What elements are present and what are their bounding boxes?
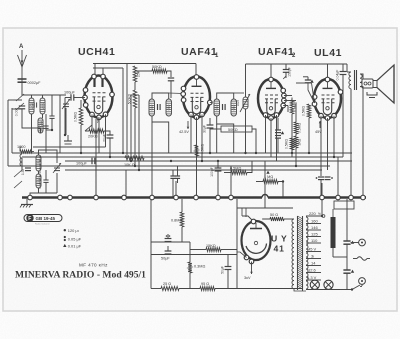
wire to output trafo: [346, 64, 348, 72]
wire UY top link: [242, 216, 254, 222]
trimmer C osc: [54, 167, 60, 169]
wire hl x131-139: [131, 94, 139, 96]
bus y166: [8, 165, 330, 167]
resistor 20K cathode: [89, 129, 104, 133]
wire top stub UAF2: [270, 64, 272, 78]
svg-text:50KΩ: 50KΩ: [228, 128, 238, 132]
cap between ant coils: [33, 102, 35, 107]
svg-text:1150: 1150: [37, 177, 41, 184]
svg-text:0.01 μF: 0.01 μF: [68, 243, 82, 248]
wire y254: [151, 254, 237, 256]
svg-text:10K Ω: 10K Ω: [124, 163, 135, 167]
svg-text:050: 050: [167, 105, 171, 111]
mains cap 2: [343, 269, 350, 271]
svg-text:95 Ω: 95 Ω: [201, 282, 209, 286]
svg-text:0.5MΩ: 0.5MΩ: [201, 144, 205, 155]
svg-text:30μF: 30μF: [203, 125, 207, 133]
wire vert x135b: [134, 108, 136, 166]
speaker magnet: [362, 79, 373, 88]
legend 0.05uF: [64, 236, 66, 238]
solder dots: [80, 152, 82, 154]
capacitor 100uF AVC: [215, 167, 222, 169]
resistor 0.8M: [181, 199, 183, 212]
svg-text:UCH41: UCH41: [78, 46, 115, 58]
svg-text:F: F: [28, 216, 31, 222]
wire coil cluster d: [59, 95, 61, 153]
wire osc a: [21, 145, 23, 147]
wire UAF1 pins down: [190, 115, 192, 154]
svg-text:1001: 1001: [41, 102, 45, 110]
antenna coil L1: [29, 98, 34, 114]
tap 45V: [306, 251, 321, 253]
svg-text:100μF: 100μF: [76, 162, 88, 166]
wire IF1 bot: [152, 116, 169, 130]
capacitor 20uF: [107, 134, 114, 136]
mains switch: [352, 285, 360, 290]
speaker cone: [373, 81, 377, 88]
junction x70: [68, 195, 73, 200]
svg-text:56V: 56V: [97, 116, 101, 123]
tube UAF41_2: [258, 79, 284, 118]
junction x30: [28, 195, 33, 200]
IF1 coil a: [149, 99, 155, 116]
svg-text:0.05 μF: 0.05 μF: [68, 236, 82, 241]
tap 125: [306, 236, 321, 238]
wire top stub UCH41 pin2: [102, 68, 104, 75]
capacitor 150pF: [285, 64, 287, 69]
tap 110: [306, 242, 321, 244]
svg-text:0.5MΩ: 0.5MΩ: [74, 112, 78, 123]
resistor 50K top: [152, 69, 167, 73]
wire trimmer drop: [65, 108, 67, 135]
svg-text:6.3 V: 6.3 V: [307, 275, 317, 280]
junction x124: [122, 195, 127, 200]
power trafo secondary: [306, 217, 308, 221]
wire top bus right: [246, 63, 348, 65]
fuse: [357, 257, 367, 261]
band switch diagonal: [14, 181, 22, 188]
wire IF2 plate link: [210, 102, 212, 104]
junction x152: [150, 195, 155, 200]
wire UY41 plate feed: [264, 161, 266, 208]
pilot lamp 1: [310, 280, 319, 289]
wire UL grid: [308, 83, 315, 103]
svg-text:500KΩ: 500KΩ: [128, 93, 132, 104]
wire diode pins: [284, 95, 292, 97]
wire osc e: [56, 173, 58, 193]
IF1 cap mid: [157, 104, 159, 110]
svg-text:0.2MΩ: 0.2MΩ: [294, 102, 298, 113]
resistor 500K vertical: [134, 82, 136, 90]
choke dark bar: [331, 217, 336, 248]
resistor 0.5M det2: [290, 138, 294, 150]
svg-text:0.5MΩ: 0.5MΩ: [285, 139, 289, 150]
wire x46 ant: [45, 114, 47, 153]
legend 0.01uF: [63, 244, 66, 247]
box under bus: [334, 201, 354, 209]
output transformer secondary: [360, 74, 362, 78]
trimmer C antenna: [63, 103, 69, 105]
svg-text:110: 110: [311, 238, 318, 243]
svg-text:12.6: 12.6: [308, 268, 317, 273]
IF2 coil a: [214, 99, 220, 116]
wire top stub UCH41 pin1: [94, 64, 96, 76]
switch diag ant: [16, 94, 24, 101]
junction x196: [194, 195, 199, 200]
svg-text:100μF: 100μF: [210, 167, 214, 177]
mains terminal 1: [359, 239, 366, 246]
svg-text:125: 125: [311, 232, 318, 237]
wire y147 left: [33, 146, 106, 148]
tap 6.3V: [306, 279, 321, 281]
wire choke: [332, 209, 334, 217]
wire coil cluster c: [22, 109, 41, 133]
resistor 0.5M vert det: [295, 103, 297, 122]
junction x338: [336, 195, 341, 200]
label 42.5V: [187, 121, 189, 129]
chassis rail: [22, 196, 262, 198]
capacitor 30uF: [207, 124, 214, 126]
svg-text:UAF41: UAF41: [258, 46, 294, 58]
capacitor diode filter: [275, 129, 281, 131]
capacitor 0.002 input: [19, 105, 25, 107]
svg-text:GB 19-45: GB 19-45: [36, 216, 56, 221]
wire IF2 drops: [233, 130, 235, 153]
wire mid drops: [95, 166, 97, 197]
speaker bracket: [367, 92, 377, 95]
junction x351: [349, 195, 354, 200]
wire vert x131: [130, 95, 132, 161]
svg-text:50KΩ: 50KΩ: [152, 65, 162, 69]
filter cap a: [165, 238, 172, 240]
wire IF1 to grid: [169, 92, 184, 95]
wire 50K link: [135, 70, 152, 72]
power trafo core: [297, 216, 299, 290]
wire antenna to coils: [22, 84, 66, 95]
IF2 cap mid: [222, 104, 224, 110]
wire UY cathode: [237, 252, 247, 258]
svg-text:120 μı: 120 μı: [68, 228, 79, 233]
IF2 coil b: [231, 99, 237, 116]
svg-text:0.05: 0.05: [236, 100, 240, 106]
antenna symbol: [18, 55, 27, 67]
svg-text:%: %: [318, 212, 321, 216]
tap 14: [306, 265, 321, 267]
wire left col x151: [150, 199, 152, 289]
wire top bus left: [93, 63, 196, 65]
resistor 0.2M vert: [291, 98, 293, 101]
wire UCH grid drop: [80, 125, 82, 153]
svg-text:0002μF: 0002μF: [28, 81, 42, 85]
cap osc extra: [43, 179, 48, 181]
wire 50Kbox: [210, 128, 221, 130]
osc core dashes: [39, 156, 41, 189]
svg-text:160: 160: [311, 219, 318, 224]
rail hop x265: [262, 195, 268, 198]
power trafo primary: [292, 219, 294, 223]
svg-text:146: 146: [311, 225, 318, 230]
wire 20K link: [85, 130, 89, 132]
tap 12.6: [306, 272, 321, 274]
wire osc c: [39, 150, 58, 163]
wire x237: [236, 199, 238, 289]
bus y153: [12, 152, 352, 154]
wire UCH bottom pins: [98, 117, 100, 153]
wire coil cluster a: [31, 95, 33, 98]
svg-text:100μF: 100μF: [64, 91, 76, 95]
wire trafo top: [293, 218, 294, 220]
osc coil L5: [36, 174, 41, 188]
capacitor heater UL: [318, 176, 324, 178]
wire vert x123: [122, 68, 124, 153]
tap 160: [306, 223, 321, 225]
capacitor IF1 top: [168, 77, 174, 79]
wire x190: [189, 242, 191, 262]
svg-text:220: 220: [309, 211, 316, 216]
resistor 50K box: [221, 126, 252, 132]
legend 120uF: [64, 229, 66, 231]
capacitor 50uF right: [227, 255, 229, 267]
resistor 0.3M: [188, 262, 192, 273]
svg-text:0.5MΩ: 0.5MΩ: [302, 106, 306, 117]
bus y157: [22, 156, 343, 158]
wire UCH pin drop2: [95, 119, 97, 197]
wire IF2 to UAF2 grid: [234, 92, 244, 94]
mains terminal 2: [359, 278, 366, 285]
svg-text:U Y: U Y: [271, 234, 288, 244]
wire osc d: [30, 188, 39, 197]
tap 31: [306, 258, 321, 260]
svg-text:UAF41: UAF41: [181, 46, 217, 58]
osc coil L4: [36, 155, 41, 171]
svg-text:50 Ω: 50 Ω: [270, 213, 278, 217]
ground antenna section: [67, 135, 69, 141]
label 45V arrow: [319, 121, 321, 128]
resistor 2K vert: [294, 136, 298, 148]
svg-text:45 V: 45 V: [308, 247, 317, 252]
wire IF2 top: [217, 93, 234, 99]
bus y170: [65, 169, 322, 171]
resistor 10K: [125, 156, 144, 160]
wire IF2 bot: [217, 116, 234, 130]
svg-text:030: 030: [215, 105, 219, 111]
osc coil choke: [20, 154, 22, 158]
pilot lamp 2: [324, 280, 333, 289]
output transformer core: [354, 70, 356, 90]
svg-text:3ı: 3ı: [311, 254, 314, 259]
logo GB 19-45: [24, 215, 62, 222]
svg-text:0.3MΩ: 0.3MΩ: [194, 265, 205, 269]
wire coil cluster b: [31, 114, 33, 153]
svg-text:MF 470 ĸHz: MF 470 ĸHz: [79, 263, 108, 268]
wire IF1 top: [152, 93, 169, 99]
tube UAF41_1: [183, 77, 210, 118]
svg-text:2KΩ: 2KΩ: [298, 138, 302, 145]
svg-text:0.5MΩ: 0.5MΩ: [298, 123, 302, 134]
wire 20uF drop: [109, 138, 111, 158]
tap 146: [306, 229, 321, 231]
svg-text:A: A: [19, 44, 24, 50]
tap 220V: [321, 199, 323, 216]
filter cap b 50uF: [165, 250, 172, 252]
svg-text:0.04μF: 0.04μF: [336, 70, 340, 81]
volume pot 0.5M: [243, 97, 248, 109]
bus y161: [65, 160, 352, 162]
wire vert x139: [138, 95, 140, 170]
wire UAF2 pins down: [265, 115, 267, 153]
resistor 25K vertical: [133, 66, 137, 82]
antenna coil L3: [38, 118, 43, 133]
svg-text:0.8MΩ: 0.8MΩ: [171, 219, 182, 223]
capacitor 0.04uF: [342, 64, 344, 71]
junction x60: [58, 195, 63, 200]
svg-text:41: 41: [274, 244, 285, 254]
wire trafo conn: [347, 71, 351, 73]
svg-text:150pF: 150pF: [288, 67, 292, 77]
antenna coil L2: [40, 98, 45, 114]
svg-text:Radio Industrie: Radio Industrie: [35, 223, 50, 226]
svg-text:UL41: UL41: [314, 47, 342, 59]
svg-text:MINERVA RADIO - Mod 495/1: MINERVA RADIO - Mod 495/1: [15, 270, 146, 281]
cap ant extra: [49, 115, 54, 117]
junction x96: [94, 195, 99, 200]
tube UL41: [314, 79, 341, 118]
svg-text:42.5V: 42.5V: [179, 130, 189, 134]
scan noise: [0, 0, 1, 1]
svg-text:030: 030: [150, 105, 154, 111]
junction x231: [229, 195, 234, 200]
resistor 0.5M UCH grid: [79, 108, 83, 125]
wire y242: [151, 241, 190, 243]
ground chassis: [26, 199, 28, 204]
tube UY41: [242, 221, 271, 260]
junction x363: [361, 195, 366, 200]
wire top bus left2: [93, 67, 123, 69]
wire osc b: [21, 158, 23, 170]
svg-text:50μF: 50μF: [221, 266, 225, 274]
capacitor grid UL41: [305, 79, 311, 81]
wire IF1 right drop: [168, 130, 170, 153]
svg-text:14: 14: [311, 261, 316, 266]
wire pot: [245, 64, 247, 97]
osc cap: [25, 167, 31, 169]
wire trafo bottom: [294, 289, 306, 292]
wire bottom rail right: [237, 288, 302, 290]
junction x322: [320, 195, 325, 200]
svg-text:50μF: 50μF: [161, 257, 170, 261]
capacitor 0.002uF antenna: [18, 78, 27, 80]
capacitor pair mid: [170, 175, 175, 177]
wire top stub UL41: [327, 64, 329, 78]
mains cap 1: [346, 199, 348, 241]
wire vert x127: [126, 64, 128, 158]
wire UAF1 top stub: [195, 64, 197, 77]
wire UL pins down: [320, 116, 322, 176]
wire left edge verticals: [7, 100, 9, 166]
tube UCH41: [85, 76, 113, 118]
junction x218: [216, 195, 221, 200]
wire lamps: [306, 289, 340, 291]
IF1 coil b: [166, 99, 172, 116]
osc res 1000: [20, 150, 32, 153]
label 3xV: [251, 266, 253, 274]
output transformer primary: [349, 72, 351, 76]
svg-text:3ĸV: 3ĸV: [244, 276, 251, 280]
resistor 0.5M UL grid: [307, 104, 311, 118]
junction x176: [174, 195, 179, 200]
svg-text:1.02: 1.02: [30, 103, 34, 110]
